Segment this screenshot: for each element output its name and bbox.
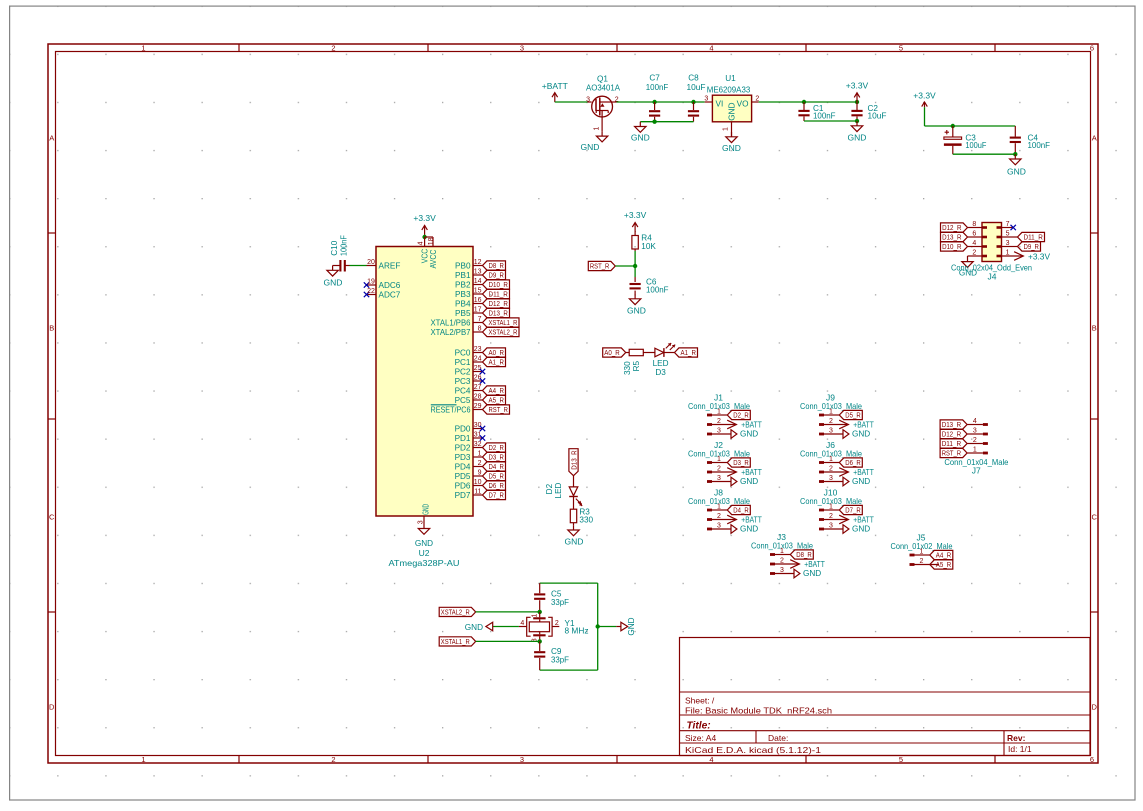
- svg-text:XTAL1/PB6: XTAL1/PB6: [431, 318, 471, 327]
- svg-text:LED: LED: [653, 359, 669, 368]
- svg-text:5: 5: [1006, 230, 1010, 237]
- svg-text:+BATT: +BATT: [542, 81, 568, 91]
- svg-text:PC1: PC1: [455, 358, 471, 367]
- svg-text:XSTAL1_R: XSTAL1_R: [441, 637, 470, 646]
- svg-text:3: 3: [829, 475, 833, 482]
- svg-text:Id: 1/1: Id: 1/1: [1008, 744, 1032, 754]
- svg-text:9: 9: [478, 469, 482, 476]
- svg-text:3: 3: [829, 427, 833, 434]
- svg-text:J1: J1: [714, 393, 723, 403]
- svg-text:PD4: PD4: [455, 462, 471, 471]
- svg-text:24: 24: [474, 355, 482, 362]
- svg-text:16: 16: [474, 297, 482, 304]
- svg-text:ADC6: ADC6: [379, 281, 401, 290]
- svg-text:C10: C10: [330, 240, 339, 255]
- svg-text:D8_R: D8_R: [489, 261, 505, 270]
- svg-text:3: 3: [520, 755, 524, 764]
- svg-text:VO: VO: [737, 99, 749, 108]
- svg-text:GND: GND: [1007, 167, 1026, 177]
- svg-text:+BATT: +BATT: [853, 467, 874, 477]
- svg-text:2: 2: [717, 465, 721, 472]
- svg-text:D13_R: D13_R: [942, 420, 962, 429]
- svg-text:D5_R: D5_R: [845, 411, 861, 420]
- svg-text:3: 3: [717, 522, 721, 529]
- svg-text:20: 20: [367, 259, 375, 266]
- svg-text:1: 1: [717, 503, 721, 510]
- svg-text:2: 2: [478, 460, 482, 467]
- svg-text:J7: J7: [972, 466, 981, 476]
- svg-text:1: 1: [532, 613, 539, 617]
- svg-text:6: 6: [1090, 755, 1094, 764]
- svg-text:PD2: PD2: [455, 443, 471, 452]
- svg-text:2: 2: [555, 620, 559, 627]
- svg-text:PB4: PB4: [455, 299, 471, 308]
- svg-text:2: 2: [829, 465, 833, 472]
- svg-text:+3.3V: +3.3V: [1028, 251, 1050, 261]
- svg-text:D12_R: D12_R: [489, 299, 509, 308]
- svg-text:+BATT: +BATT: [741, 420, 762, 430]
- svg-text:25: 25: [474, 365, 482, 372]
- svg-text:J10: J10: [824, 488, 838, 498]
- svg-text:2: 2: [829, 418, 833, 425]
- svg-text:XSTAL1_R: XSTAL1_R: [489, 318, 518, 327]
- svg-text:33pF: 33pF: [551, 598, 569, 607]
- svg-text:D13_R: D13_R: [489, 309, 509, 318]
- svg-text:6: 6: [1090, 44, 1094, 53]
- svg-text:J4: J4: [988, 271, 997, 281]
- svg-text:7: 7: [478, 316, 482, 323]
- svg-text:1: 1: [141, 44, 145, 53]
- svg-text:D3_R: D3_R: [733, 458, 749, 467]
- svg-text:3: 3: [418, 520, 425, 524]
- svg-text:A0_R: A0_R: [604, 348, 620, 357]
- svg-text:GND: GND: [852, 430, 870, 439]
- svg-text:GND: GND: [740, 477, 758, 486]
- svg-text:+BATT: +BATT: [804, 559, 825, 569]
- svg-text:32: 32: [474, 441, 482, 448]
- svg-text:GND: GND: [627, 617, 636, 635]
- svg-text:31: 31: [474, 431, 482, 438]
- svg-text:PB0: PB0: [455, 261, 471, 270]
- svg-text:100uF: 100uF: [965, 141, 986, 150]
- svg-text:1: 1: [722, 127, 729, 131]
- svg-text:GND: GND: [465, 623, 483, 632]
- svg-text:D2: D2: [545, 483, 554, 494]
- svg-text:A5_R: A5_R: [489, 396, 505, 405]
- svg-text:14: 14: [474, 278, 482, 285]
- svg-text:3: 3: [586, 96, 590, 103]
- svg-text:D3_R: D3_R: [489, 453, 505, 462]
- svg-text:3: 3: [704, 95, 708, 102]
- svg-text:4: 4: [973, 418, 977, 425]
- svg-text:GND: GND: [324, 277, 343, 287]
- svg-text:GND: GND: [852, 477, 870, 486]
- svg-text:1: 1: [478, 450, 482, 457]
- svg-text:11: 11: [474, 488, 481, 495]
- svg-text:C: C: [1091, 513, 1097, 522]
- svg-text:3: 3: [520, 44, 524, 53]
- svg-text:File: Basic Module TDK_nRF24.s: File: Basic Module TDK_nRF24.sch: [685, 706, 832, 716]
- svg-text:XTAL2/PB7: XTAL2/PB7: [431, 328, 471, 337]
- svg-text:5: 5: [899, 755, 903, 764]
- svg-text:J3: J3: [777, 532, 786, 542]
- svg-text:1: 1: [1006, 249, 1010, 256]
- svg-text:33pF: 33pF: [551, 656, 569, 665]
- svg-text:RESET/PC6: RESET/PC6: [431, 405, 471, 414]
- svg-text:PC3: PC3: [455, 377, 471, 386]
- svg-text:D11_R: D11_R: [489, 290, 509, 299]
- svg-text:6: 6: [972, 230, 976, 237]
- svg-text:D9_R: D9_R: [489, 271, 505, 280]
- svg-text:Rev:: Rev:: [1007, 733, 1026, 743]
- svg-text:GND: GND: [803, 569, 821, 578]
- svg-text:1: 1: [920, 548, 924, 555]
- svg-text:2: 2: [920, 558, 924, 565]
- svg-text:J6: J6: [826, 440, 835, 450]
- svg-text:B: B: [49, 324, 54, 333]
- svg-text:D8_R: D8_R: [796, 550, 812, 559]
- svg-text:GND: GND: [848, 132, 867, 142]
- svg-text:4: 4: [417, 241, 424, 245]
- svg-text:D4_R: D4_R: [733, 506, 749, 515]
- svg-text:4: 4: [972, 240, 976, 247]
- svg-text:J5: J5: [917, 533, 926, 543]
- svg-text:A1_R: A1_R: [681, 348, 697, 357]
- svg-text:GND: GND: [627, 305, 646, 315]
- svg-text:100nF: 100nF: [340, 235, 349, 256]
- svg-text:10uF: 10uF: [687, 83, 706, 92]
- svg-text:+3.3V: +3.3V: [624, 210, 647, 220]
- svg-text:U1: U1: [725, 74, 736, 83]
- svg-text:PB1: PB1: [455, 271, 471, 280]
- svg-text:330: 330: [623, 361, 632, 375]
- svg-text:GND: GND: [631, 133, 650, 143]
- svg-text:2: 2: [331, 44, 335, 53]
- svg-text:7: 7: [1006, 221, 1010, 228]
- svg-text:PB3: PB3: [455, 290, 471, 299]
- svg-text:D2_R: D2_R: [733, 411, 749, 420]
- svg-text:PD1: PD1: [455, 434, 471, 443]
- svg-text:PB2: PB2: [455, 280, 471, 289]
- svg-text:XSTAL2_R: XSTAL2_R: [441, 608, 470, 617]
- svg-text:19: 19: [367, 279, 375, 286]
- svg-text:D: D: [49, 703, 55, 712]
- svg-text:J2: J2: [714, 440, 723, 450]
- svg-text:A: A: [49, 134, 54, 143]
- svg-text:PD7: PD7: [455, 491, 471, 500]
- svg-text:1: 1: [717, 456, 721, 463]
- svg-text:GND: GND: [565, 536, 584, 546]
- svg-text:RST_R: RST_R: [489, 405, 509, 414]
- svg-text:2: 2: [717, 418, 721, 425]
- svg-text:1: 1: [780, 548, 784, 555]
- svg-text:100nF: 100nF: [1028, 141, 1051, 150]
- svg-text:D12_R: D12_R: [942, 430, 962, 439]
- svg-text:2: 2: [717, 513, 721, 520]
- svg-text:Q1: Q1: [597, 74, 608, 83]
- svg-text:17: 17: [474, 306, 482, 313]
- svg-text:+BATT: +BATT: [853, 515, 874, 525]
- svg-text:+BATT: +BATT: [741, 467, 762, 477]
- svg-text:PD6: PD6: [455, 481, 471, 490]
- svg-text:A1_R: A1_R: [489, 358, 505, 367]
- svg-text:C8: C8: [688, 73, 699, 82]
- svg-text:PB5: PB5: [455, 309, 471, 318]
- svg-text:A: A: [1092, 134, 1097, 143]
- svg-text:GND: GND: [581, 142, 600, 152]
- svg-text:PD0: PD0: [455, 424, 471, 433]
- svg-text:2: 2: [973, 437, 977, 444]
- svg-text:+BATT: +BATT: [853, 420, 874, 430]
- svg-text:+BATT: +BATT: [741, 515, 762, 525]
- svg-text:2: 2: [829, 513, 833, 520]
- svg-text:10K: 10K: [641, 242, 656, 251]
- svg-text:VI: VI: [716, 99, 724, 108]
- svg-text:ADC7: ADC7: [379, 290, 401, 299]
- svg-text:D5_R: D5_R: [489, 472, 505, 481]
- svg-text:GND: GND: [740, 430, 758, 439]
- svg-text:10: 10: [474, 479, 482, 486]
- svg-text:1: 1: [717, 408, 721, 415]
- svg-text:B: B: [1092, 324, 1097, 333]
- svg-text:PC5: PC5: [455, 396, 471, 405]
- svg-text:GND: GND: [421, 504, 430, 515]
- svg-text:18: 18: [428, 237, 435, 245]
- svg-text:+3.3V: +3.3V: [846, 81, 869, 91]
- svg-text:ATmega328P-AU: ATmega328P-AU: [389, 558, 460, 568]
- svg-text:4: 4: [709, 755, 713, 764]
- svg-text:D3: D3: [655, 368, 666, 377]
- svg-text:D: D: [1091, 703, 1097, 712]
- svg-text:26: 26: [474, 374, 482, 381]
- svg-text:KiCad E.D.A. kicad (5.1.12)-1: KiCad E.D.A. kicad (5.1.12)-1: [685, 745, 821, 755]
- svg-text:100nF: 100nF: [646, 83, 669, 92]
- svg-text:D6_R: D6_R: [489, 481, 505, 490]
- svg-text:PD3: PD3: [455, 453, 471, 462]
- svg-text:PC2: PC2: [455, 367, 471, 376]
- svg-text:2: 2: [972, 249, 976, 256]
- svg-text:D12_R: D12_R: [942, 223, 962, 232]
- svg-text:13: 13: [474, 268, 482, 275]
- svg-text:AO3401A: AO3401A: [586, 84, 621, 93]
- svg-text:D4_R: D4_R: [489, 462, 505, 471]
- svg-text:22: 22: [367, 288, 375, 295]
- svg-text:27: 27: [474, 384, 482, 391]
- svg-text:D7_R: D7_R: [845, 506, 861, 515]
- svg-text:2: 2: [780, 557, 784, 564]
- svg-text:PD5: PD5: [455, 472, 471, 481]
- svg-text:A5_R: A5_R: [936, 560, 952, 569]
- svg-text:8: 8: [972, 221, 976, 228]
- svg-text:+3.3V: +3.3V: [913, 90, 936, 100]
- svg-text:15: 15: [474, 287, 482, 294]
- svg-text:D13_R: D13_R: [942, 233, 962, 242]
- svg-text:PC4: PC4: [455, 386, 471, 395]
- svg-text:GND: GND: [740, 525, 758, 534]
- svg-text:1: 1: [141, 755, 145, 764]
- svg-text:Size: A4: Size: A4: [685, 733, 716, 743]
- svg-text:D11_R: D11_R: [1024, 233, 1044, 242]
- svg-text:C: C: [49, 513, 55, 522]
- svg-text:4: 4: [709, 44, 713, 53]
- svg-text:A4_R: A4_R: [936, 551, 952, 560]
- svg-text:C7: C7: [649, 73, 660, 82]
- svg-text:D10_R: D10_R: [942, 242, 962, 251]
- svg-text:D13_R: D13_R: [569, 450, 578, 470]
- svg-text:Date:: Date:: [768, 733, 788, 743]
- svg-text:GND: GND: [415, 539, 433, 548]
- svg-text:GND: GND: [722, 143, 741, 153]
- svg-text:D10_R: D10_R: [489, 280, 509, 289]
- svg-text:XSTAL2_R: XSTAL2_R: [489, 328, 518, 337]
- svg-text:ME6209A33: ME6209A33: [707, 86, 751, 95]
- svg-text:1: 1: [829, 503, 833, 510]
- svg-text:2: 2: [331, 755, 335, 764]
- svg-text:RST_R: RST_R: [942, 449, 962, 458]
- svg-text:A4_R: A4_R: [489, 386, 505, 395]
- svg-text:8: 8: [478, 325, 482, 332]
- svg-text:A0_R: A0_R: [489, 348, 505, 357]
- svg-text:AVCC: AVCC: [429, 249, 438, 268]
- svg-text:J9: J9: [826, 393, 835, 403]
- svg-text:100nF: 100nF: [813, 111, 836, 120]
- svg-text:PC0: PC0: [455, 348, 471, 357]
- svg-text:3: 3: [829, 522, 833, 529]
- svg-text:D9_R: D9_R: [1024, 242, 1040, 251]
- svg-text:1: 1: [973, 446, 977, 453]
- svg-text:4: 4: [520, 620, 524, 627]
- svg-text:23: 23: [474, 346, 482, 353]
- svg-text:10uF: 10uF: [868, 111, 887, 120]
- svg-text:1: 1: [829, 456, 833, 463]
- svg-text:D2_R: D2_R: [489, 443, 505, 452]
- svg-text:Title:: Title:: [687, 721, 711, 732]
- svg-text:3: 3: [717, 475, 721, 482]
- svg-text:GND: GND: [728, 102, 737, 120]
- svg-text:LED: LED: [554, 482, 563, 498]
- svg-text:D6_R: D6_R: [845, 458, 861, 467]
- svg-text:1: 1: [829, 408, 833, 415]
- svg-text:30: 30: [474, 422, 482, 429]
- svg-text:28: 28: [474, 393, 482, 400]
- svg-text:8 MHz: 8 MHz: [565, 627, 589, 636]
- svg-text:1: 1: [593, 127, 600, 131]
- svg-text:330: 330: [579, 516, 593, 525]
- svg-text:R5: R5: [632, 361, 641, 372]
- svg-text:J8: J8: [714, 488, 723, 498]
- svg-text:GND: GND: [852, 525, 870, 534]
- svg-text:RST_R: RST_R: [590, 262, 610, 271]
- svg-text:D11_R: D11_R: [942, 439, 962, 448]
- svg-text:29: 29: [474, 403, 482, 410]
- svg-text:100nF: 100nF: [646, 286, 669, 295]
- svg-text:AREF: AREF: [379, 261, 401, 270]
- svg-text:+3.3V: +3.3V: [413, 213, 436, 223]
- svg-text:D7_R: D7_R: [489, 491, 505, 500]
- svg-text:12: 12: [474, 259, 482, 266]
- svg-text:3: 3: [717, 427, 721, 434]
- svg-text:Sheet: /: Sheet: /: [685, 696, 715, 706]
- svg-text:5: 5: [899, 44, 903, 53]
- svg-text:U2: U2: [419, 548, 430, 558]
- svg-text:3: 3: [780, 567, 784, 574]
- svg-text:3: 3: [1006, 240, 1010, 247]
- svg-text:3: 3: [973, 427, 977, 434]
